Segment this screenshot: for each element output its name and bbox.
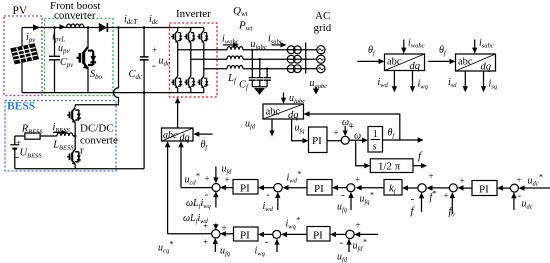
theta_f output line — [383, 128, 424, 143]
svg-text:ufq*: ufq* — [360, 191, 374, 206]
inductor boost — [67, 24, 84, 27]
row1: wire ufq circle to PI mid — [332, 185, 347, 190]
label S_bo — [90, 69, 103, 81]
svg-text:dq: dq — [481, 62, 492, 73]
node dot BESS leg top — [117, 26, 120, 29]
svg-text:-: - — [205, 189, 209, 201]
svg-text:BESS: BESS — [7, 101, 35, 113]
ground C_f — [254, 88, 265, 95]
svg-text:isd: isd — [448, 77, 457, 89]
inverter leg 2 — [190, 28, 192, 93]
row1: u_fd input stub — [205, 164, 233, 184]
label U_BESS — [20, 148, 43, 160]
BESS dashed box — [5, 101, 116, 172]
svg-text:abc: abc — [266, 107, 281, 118]
node dot C_dc top — [143, 26, 146, 29]
svg-text:ufabc: ufabc — [289, 93, 305, 105]
wire PI to PLL sum — [327, 140, 341, 142]
svg-text:-: - — [266, 189, 270, 201]
output i_wd — [378, 71, 398, 93]
svg-text:+: + — [356, 220, 361, 230]
grid bus — [305, 43, 307, 74]
svg-text:grid: grid — [314, 22, 332, 34]
svg-text:+: + — [225, 175, 230, 185]
i_sabc input block S — [472, 38, 494, 54]
wire u_fq to PI — [292, 119, 309, 143]
row2: wire PI mid2 to iwq circle — [281, 216, 307, 238]
wire sum to 1/s — [349, 131, 368, 143]
output i_sd — [448, 71, 468, 92]
i_wabc input block W — [401, 38, 425, 54]
theta_f input to dq-abc — [193, 131, 212, 151]
Front boost converter label — [50, 0, 100, 22]
wire BESS leg with hop over bottom rail — [75, 28, 118, 108]
svg-text:θf: θf — [388, 128, 396, 140]
svg-text:+: + — [355, 175, 360, 185]
svg-text:+: + — [429, 171, 434, 181]
svg-text:abc: abc — [387, 57, 402, 68]
svg-text:θf: θf — [368, 45, 376, 57]
row2: i_wq stub — [255, 236, 280, 258]
svg-text:iwd: iwd — [263, 201, 274, 213]
omega_0 input — [334, 117, 355, 138]
svg-text:ugabc: ugabc — [310, 78, 328, 90]
svg-text:1: 1 — [373, 129, 378, 140]
current arrow i_pv — [26, 24, 40, 44]
svg-text:udc*: udc* — [528, 173, 543, 188]
row2: wire ufd circle to PI mid2 — [330, 232, 346, 237]
Inverter label — [176, 8, 211, 20]
row1: wire circle to PI right — [497, 185, 510, 190]
row1: sum circle f0 — [449, 184, 457, 192]
row2: wire iwq circle to PI left2 — [258, 232, 273, 237]
row1: u_dc* input — [517, 173, 550, 191]
label u_dc with plus minus — [152, 45, 171, 72]
block 1/s — [368, 127, 383, 153]
svg-text:+: + — [203, 237, 208, 247]
wire BESS branch — [15, 135, 75, 137]
omega tap to 1-2pi — [356, 140, 371, 168]
svg-text:1/2 π: 1/2 π — [378, 161, 401, 173]
svg-text:Qwt: Qwt — [233, 5, 249, 18]
inductor L_f phase b — [227, 56, 243, 59]
svg-text:Lf: Lf — [227, 73, 237, 85]
label C_pv — [60, 57, 74, 69]
wire BESS bottom rail — [15, 168, 144, 170]
inverter IGBT Q2 — [171, 76, 182, 88]
svg-text:PI: PI — [312, 135, 322, 147]
svg-text:θf: θf — [201, 140, 209, 152]
wire top rail — [22, 27, 204, 29]
svg-text:upv: upv — [58, 43, 71, 55]
inverter IGBT Q5 — [197, 31, 208, 43]
svg-text:PI: PI — [240, 230, 250, 242]
row1: omega Lf iwq stub — [186, 189, 219, 211]
f output arrow — [413, 150, 427, 168]
svg-text:iwq: iwq — [418, 79, 429, 91]
svg-text:Pwt: Pwt — [238, 20, 253, 33]
svg-text:converter: converter — [54, 10, 96, 22]
DC/DC leg — [74, 122, 76, 168]
PWM arrow into inverter — [175, 97, 180, 128]
current arrow i_BESS — [53, 122, 71, 135]
label L_BESS — [52, 140, 74, 152]
transistor S_bo leg — [87, 28, 89, 93]
block 1/2pi — [370, 159, 413, 173]
u_fabc arrow into PLL — [281, 93, 306, 106]
gain block k_f — [384, 180, 402, 196]
svg-text:f*: f* — [430, 189, 437, 203]
abc-dq block S (grid currents) — [456, 54, 496, 73]
svg-text:f: f — [418, 150, 423, 162]
row1: wire f0 circle to f circle with f* label — [427, 171, 450, 203]
wire bottom rail — [22, 92, 204, 94]
svg-text:LBESS: LBESS — [52, 140, 74, 152]
row1: wire PI mid to iwd circle — [283, 170, 308, 191]
row1: wire PI left to ucd circle — [220, 175, 233, 191]
inverter leg 1 — [177, 28, 179, 93]
svg-text:PV: PV — [13, 5, 28, 17]
phase line b — [191, 58, 306, 60]
svg-text:-: - — [411, 193, 415, 205]
svg-text:abc: abc — [458, 57, 473, 68]
row1: wire PI to f0 circle — [458, 176, 473, 191]
Inverter dashed box — [170, 23, 218, 97]
row2: u_fd stub — [337, 237, 352, 263]
svg-text:s: s — [373, 142, 377, 153]
solar panel PV — [11, 44, 39, 64]
svg-text:ufd: ufd — [222, 164, 233, 176]
svg-text:isabc: isabc — [479, 38, 494, 50]
label Q_wt — [233, 5, 249, 18]
svg-text:dq: dq — [288, 110, 299, 121]
svg-text:ipv: ipv — [26, 32, 36, 44]
svg-text:dq: dq — [410, 61, 421, 72]
node dot S_bo top — [87, 26, 90, 29]
node dot C_pv top — [53, 26, 56, 29]
label DC/DC converter — [80, 123, 118, 157]
inverter leg 3 — [203, 28, 205, 93]
current arrow i_pvL — [52, 24, 66, 43]
svg-text:-: - — [265, 236, 269, 248]
svg-text:iwabc: iwabc — [222, 34, 239, 46]
svg-text:+: + — [334, 128, 339, 138]
svg-text:+: + — [517, 175, 522, 185]
AC source a — [306, 46, 325, 54]
output i_sq — [481, 71, 498, 92]
node dots phase taps — [251, 49, 268, 70]
svg-text:Cf: Cf — [239, 80, 249, 92]
svg-text:AC: AC — [315, 10, 330, 22]
svg-text:-: - — [152, 60, 156, 72]
inductor L_BESS — [57, 133, 73, 136]
svg-text:iwq*: iwq* — [286, 216, 300, 231]
svg-text:+: + — [152, 45, 157, 55]
transformer phase b — [287, 55, 301, 63]
svg-text:ucd*: ucd* — [185, 172, 200, 187]
capacitor C_pv — [49, 28, 60, 93]
row1: u_dc feedback stub — [511, 190, 533, 211]
diode boost — [99, 23, 108, 32]
svg-text:kf: kf — [389, 184, 397, 196]
PLL sum circle — [341, 136, 349, 144]
svg-text:Sbo: Sbo — [90, 69, 103, 81]
output i_wq — [410, 71, 429, 93]
row2: PI block mid — [307, 227, 330, 242]
row1: f feedback stub — [411, 192, 425, 217]
phase line c — [204, 68, 306, 70]
row1: i_wd stub — [263, 189, 281, 214]
svg-text:udc: udc — [159, 56, 172, 68]
row2: sum circle ucq — [212, 230, 220, 238]
row2: u_fq input stub — [203, 237, 231, 258]
transformer phase c — [287, 65, 301, 73]
svg-text:Cdc: Cdc — [129, 69, 144, 81]
label C_dc — [129, 69, 144, 81]
svg-text:+: + — [205, 174, 210, 184]
svg-text:idcT: idcT — [124, 14, 138, 26]
theta_f feedback wire — [304, 111, 400, 140]
svg-text:PI: PI — [314, 183, 324, 195]
row2: sum circle iwq — [273, 230, 281, 238]
theta_f input block S — [428, 45, 455, 64]
PLL PI block — [309, 127, 328, 153]
transistor S_bo — [76, 47, 96, 69]
row1: u_fq stub — [337, 189, 354, 214]
svg-text:ufd: ufd — [337, 252, 348, 263]
AC source c — [306, 65, 325, 73]
svg-text:abc: abc — [163, 130, 178, 141]
row1: wire kf to ufq circle — [355, 175, 384, 206]
inverter IGBT Q4 — [184, 76, 195, 88]
riser u_cq* — [165, 141, 170, 234]
svg-text:idc: idc — [149, 14, 159, 26]
row2: u_fd* input — [353, 220, 379, 253]
wire C_dc down to BESS bottom — [143, 93, 145, 169]
wire PV vertical — [21, 28, 23, 93]
output u_fd — [245, 119, 275, 137]
node dot BESS midpoint — [74, 135, 77, 138]
svg-text:Inverter: Inverter — [176, 8, 211, 20]
theta_f input block W — [357, 45, 384, 64]
svg-text:ωLfiwd: ωLfiwd — [183, 213, 209, 225]
PLL abc-dq block — [263, 104, 304, 121]
svg-text:ufd*: ufd* — [353, 238, 367, 253]
row2: output wire u_cq* — [158, 234, 212, 255]
label u_pv — [58, 43, 71, 55]
AC source b — [306, 55, 325, 63]
svg-text:DC/DC: DC/DC — [80, 123, 114, 135]
capacitor C_dc — [140, 28, 149, 93]
riser u_cd* — [178, 141, 183, 187]
inverter IGBT Q3 — [184, 31, 195, 43]
row1: output wire u_cd* — [181, 172, 212, 188]
svg-text:iwd*: iwd* — [287, 170, 301, 185]
label i_dcT — [124, 14, 138, 26]
inductor L_f phase c — [227, 66, 243, 69]
label u_gabc with arrow — [310, 78, 328, 95]
svg-text:converte: converte — [80, 135, 118, 147]
row1: PI block left — [233, 180, 258, 195]
svg-text:+: + — [222, 223, 227, 233]
transformer phase a — [287, 46, 301, 54]
label L_f — [227, 73, 237, 85]
svg-text:f: f — [411, 205, 416, 217]
row1: PI block mid — [307, 180, 332, 196]
PV label — [13, 5, 28, 17]
label C_f — [239, 80, 249, 92]
Front boost converter dashed box — [45, 19, 114, 96]
abc-dq block W (wind currents) — [385, 54, 425, 72]
row1: f_0 stub — [444, 191, 456, 219]
row1: wire iwd circle to PI left — [258, 185, 274, 190]
svg-text:PI: PI — [240, 183, 250, 195]
svg-text:iwd: iwd — [378, 77, 389, 89]
AC grid label — [314, 10, 332, 34]
label P_wt — [238, 20, 253, 33]
svg-text:iwabc: iwabc — [408, 38, 425, 50]
svg-text:+: + — [16, 138, 21, 148]
row1: wire f circle to kf — [402, 185, 418, 190]
svg-text:isq: isq — [489, 79, 498, 91]
svg-text:+: + — [460, 176, 465, 186]
svg-text:ufq: ufq — [220, 246, 231, 258]
svg-text:ω: ω — [354, 131, 361, 142]
phase line a — [178, 49, 306, 51]
svg-text:-: - — [340, 237, 344, 249]
svg-text:+: + — [444, 191, 449, 201]
inverter IGBT Q6 — [197, 76, 208, 88]
label R_BESS — [21, 124, 44, 136]
battery U_BESS — [10, 136, 21, 169]
dq to abc block — [162, 128, 194, 144]
svg-text:θf: θf — [439, 45, 447, 57]
inverter IGBT Q1 — [171, 31, 182, 43]
DC/DC IGBT bottom — [67, 149, 81, 164]
svg-text:isabc: isabc — [268, 34, 283, 46]
resistor R_BESS — [25, 133, 40, 139]
svg-text:-: - — [341, 189, 345, 201]
current arrow i_sabc — [268, 34, 287, 48]
svg-text:ufq: ufq — [337, 202, 348, 214]
svg-text:r: r — [80, 145, 84, 157]
row2: omega Lf iwd stub — [183, 213, 219, 231]
PV dashed box — [4, 16, 42, 96]
row1: sum circle udc — [510, 184, 518, 192]
svg-text:ufq: ufq — [295, 123, 306, 135]
svg-text:ufd: ufd — [245, 119, 256, 131]
row2: PI block left — [234, 227, 259, 242]
label i_dc — [149, 14, 159, 26]
svg-text:udc: udc — [522, 199, 533, 211]
row1: sum circle f — [418, 184, 426, 192]
label u_fabc line — [251, 39, 267, 51]
capacitor bank C_f — [249, 50, 271, 87]
current arrow i_wabc — [222, 34, 239, 48]
row1: PI block right — [472, 181, 497, 196]
BESS label — [7, 101, 35, 113]
row2: wire PI left2 to ucq circle — [220, 223, 234, 237]
row1: sum circle ucd — [212, 184, 220, 192]
svg-text:ucq*: ucq* — [158, 240, 173, 255]
row2: sum circle ufd — [346, 230, 354, 238]
svg-text:RBESS: RBESS — [21, 124, 44, 136]
row1: sum circle ufq — [347, 184, 355, 192]
row1: sum circle iwd — [274, 184, 282, 192]
inductor L_f phase a — [227, 47, 243, 50]
node dot C_dc bottom — [143, 91, 146, 94]
svg-text:PI: PI — [313, 230, 323, 242]
svg-text:Cpv: Cpv — [60, 57, 74, 69]
svg-text:PI: PI — [479, 184, 489, 196]
DC/DC IGBT top — [67, 108, 81, 123]
svg-text:UBESS: UBESS — [20, 148, 43, 160]
